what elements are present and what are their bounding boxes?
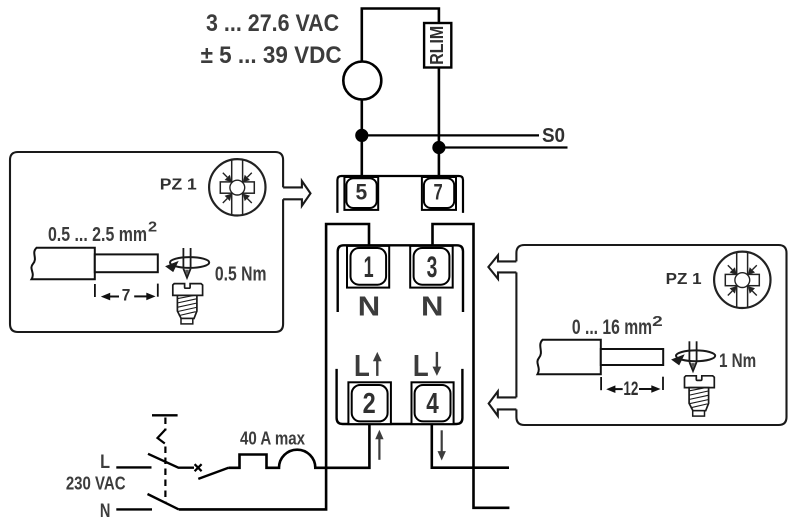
- svg-text:RLIM: RLIM: [426, 26, 447, 65]
- resistor RLIM: [424, 23, 451, 68]
- terminal block 5/7 bracket: [337, 176, 463, 213]
- pozidriv bit icon right: [714, 252, 770, 308]
- terminal 3: [410, 246, 453, 288]
- svg-text:2: 2: [148, 220, 157, 236]
- L supply wire: [116, 466, 151, 468]
- screwdriver with torque rotation right: [671, 341, 715, 371]
- svg-text:PZ 1: PZ 1: [160, 177, 198, 194]
- breaker linkage top bar: [152, 414, 178, 416]
- svg-text:L: L: [354, 349, 370, 383]
- callout arrow pointing right to terminals 5/7: [283, 181, 310, 206]
- svg-text:S0: S0: [542, 124, 565, 147]
- callout arrow pointing left to terminals 1/3: [488, 255, 516, 279]
- svg-text:40 A max: 40 A max: [240, 429, 305, 449]
- svg-text:3 ... 27.6 VAC: 3 ... 27.6 VAC: [206, 11, 339, 37]
- svg-text:± 5 ... 39 VDC: ± 5 ... 39 VDC: [201, 43, 342, 69]
- svg-text:3: 3: [427, 251, 438, 284]
- terminal 2: [348, 382, 391, 424]
- svg-text:1 Nm: 1 Nm: [719, 350, 756, 372]
- svg-text:0.5 ... 2.5 mm: 0.5 ... 2.5 mm: [48, 224, 147, 246]
- terminal screw left: [173, 284, 203, 324]
- terminal 4: [412, 382, 454, 424]
- pozidriv bit icon left: [209, 159, 265, 215]
- svg-text:L: L: [413, 349, 429, 383]
- wire from source circle down to terminal 5: [360, 100, 363, 177]
- arrow down at label L terminal 4: [433, 352, 442, 376]
- svg-text:2: 2: [363, 388, 376, 420]
- cable conductor left: [95, 254, 158, 272]
- device upper terminal carrier: [338, 245, 463, 312]
- breaker linkage dashed line lower: [164, 447, 166, 504]
- N supply wire: [116, 508, 152, 510]
- cable insulation left: [31, 248, 94, 279]
- left callout box: [10, 152, 283, 332]
- terminal 1: [347, 246, 389, 288]
- wire from RLIM down to terminal 7: [438, 68, 441, 177]
- svg-text:4: 4: [426, 388, 439, 420]
- L input wire: breaker to terminal 2 with overcurrent bumps: [229, 424, 370, 468]
- flow arrow up into terminal 2: [375, 430, 383, 460]
- terminal 7: [422, 177, 456, 210]
- breaker L pole blade: [148, 454, 194, 468]
- svg-text:7: 7: [122, 285, 131, 304]
- svg-text:12: 12: [623, 378, 638, 400]
- svg-text:L: L: [100, 451, 110, 473]
- arrow up at label L terminal 2: [373, 352, 382, 376]
- callout arrow pointing left to terminals 2/4: [489, 391, 517, 416]
- svg-text:230 VAC: 230 VAC: [66, 472, 126, 493]
- breaker linkage dashed line upper: [164, 418, 166, 431]
- svg-text:N: N: [100, 500, 111, 522]
- junction dot at source wire: [355, 129, 368, 142]
- terminal screw right: [685, 376, 715, 416]
- right callout box: [516, 245, 786, 425]
- breaker second blade: [198, 468, 228, 479]
- S0 wire lower: [439, 146, 568, 148]
- breaker contact x: [195, 464, 202, 471]
- svg-text:0.5 Nm: 0.5 Nm: [215, 262, 267, 285]
- breaker N pole blade: [148, 494, 179, 509]
- screwdriver with torque rotation left: [165, 248, 209, 278]
- cable insulation right: [537, 340, 600, 374]
- svg-text:7: 7: [434, 180, 443, 205]
- svg-text:N: N: [421, 291, 443, 322]
- svg-text:N: N: [358, 291, 380, 322]
- svg-text:5: 5: [355, 180, 367, 205]
- dimension 12 mm strip length: [601, 377, 663, 400]
- junction dot at RLIM wire: [432, 141, 445, 154]
- terminal 5: [344, 177, 378, 210]
- svg-text:PZ 1: PZ 1: [666, 271, 702, 288]
- dimension 7 mm strip length: [95, 284, 158, 305]
- source circle G1: [343, 62, 381, 100]
- flow arrow down out of terminal 4: [438, 430, 446, 460]
- N input wire: from N switch up left side to terminal 1: [179, 224, 369, 509]
- N output wire: from terminal 3 over the top, down right side: [433, 224, 510, 508]
- breaker trip zigzag: [158, 430, 166, 444]
- wire top loop from source to RLIM: [362, 9, 439, 63]
- svg-text:0 ... 16 mm: 0 ... 16 mm: [572, 316, 652, 339]
- S0 wire upper: [362, 134, 539, 136]
- device lower terminal carrier: [337, 369, 463, 424]
- L output wire: from terminal 4 down and right: [432, 424, 509, 468]
- cable conductor right: [601, 349, 663, 365]
- svg-text:2: 2: [652, 314, 663, 330]
- svg-text:1: 1: [364, 251, 374, 284]
